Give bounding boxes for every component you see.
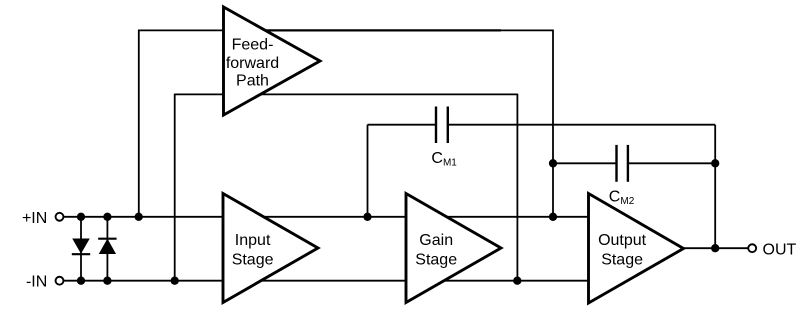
junction dot D2 bottom <box>103 277 111 285</box>
junction dot on output wire <box>711 244 719 252</box>
junction dot V2 on -IN rail <box>171 277 179 285</box>
svg-text:Stage: Stage <box>601 252 643 269</box>
capacitor CM2 plates <box>615 145 617 182</box>
svg-text:Path: Path <box>236 73 269 90</box>
op-amp gain stage triangle <box>406 194 501 303</box>
wire vertical V1 from H1 down to +IN rail <box>138 30 140 217</box>
svg-text:Output: Output <box>598 232 647 249</box>
wire feed-forward lower horizontal (H2) <box>175 93 518 95</box>
svg-text:Stage: Stage <box>415 252 457 269</box>
OUT terminal circle <box>748 244 756 252</box>
diode D2 (right clamp, cathode up) <box>98 239 116 254</box>
junction dot V5 on +IN rail <box>549 213 557 221</box>
wire CM2 left segment (H4a) <box>553 162 617 164</box>
junction dot V4 on -IN rail <box>513 277 521 285</box>
wire CM2 right segment (H4b) <box>628 162 715 164</box>
wire CM1 left segment (H3a) <box>368 124 437 126</box>
junction dot V1 on +IN rail <box>135 213 143 221</box>
wire vertical V6 from CM1 right end down to output wire <box>714 125 716 249</box>
svg-text:-IN: -IN <box>26 274 47 291</box>
svg-text:Gain: Gain <box>419 232 453 249</box>
svg-text:CM1: CM1 <box>431 150 457 169</box>
junction dot D1 top <box>77 213 85 221</box>
wire vertical V2 from H2 down to -IN rail <box>174 94 176 281</box>
wire CM1 right segment (H3b) <box>448 124 715 126</box>
+IN terminal circle <box>56 213 64 221</box>
wire diode branch D2 vertical <box>106 217 108 281</box>
svg-text:+IN: +IN <box>22 210 47 227</box>
svg-text:Feed-: Feed- <box>232 37 274 54</box>
wire vertical V4 from H2 right end down to -IN rail <box>516 94 518 281</box>
svg-text:CM2: CM2 <box>609 189 635 208</box>
junction dot CM2 left <box>549 159 557 167</box>
wire +IN rail (H5) from +IN terminal to output stage <box>63 216 588 218</box>
capacitor CM1 plates <box>435 107 437 144</box>
wire feed-forward top horizontal (H1) <box>139 29 553 31</box>
wire output (H7) from output stage apex to OUT terminal <box>683 247 748 249</box>
wire vertical V5 from H1 right end down to +IN rail <box>552 30 554 217</box>
op-amp feed-forward path triangle <box>224 7 321 115</box>
wire -IN rail (H6) from -IN terminal to output stage <box>63 280 588 282</box>
svg-text:Input: Input <box>235 232 271 249</box>
svg-text:forward: forward <box>226 55 279 72</box>
junction dot D2 top <box>103 213 111 221</box>
diode D1 (left clamp, cathode down) <box>72 239 90 254</box>
svg-text:Stage: Stage <box>232 252 274 269</box>
junction dot CM2 right <box>711 159 719 167</box>
wire vertical V3 from CM1 left down to +IN rail <box>367 125 369 217</box>
op-amp input stage triangle <box>223 194 318 303</box>
junction dot D1 bottom <box>77 277 85 285</box>
svg-text:OUT: OUT <box>763 242 797 259</box>
wire diode branch D1 vertical <box>80 217 82 281</box>
op-amp output stage triangle <box>589 194 684 304</box>
junction dot V3 on +IN rail <box>363 213 371 221</box>
-IN terminal circle <box>56 277 64 285</box>
